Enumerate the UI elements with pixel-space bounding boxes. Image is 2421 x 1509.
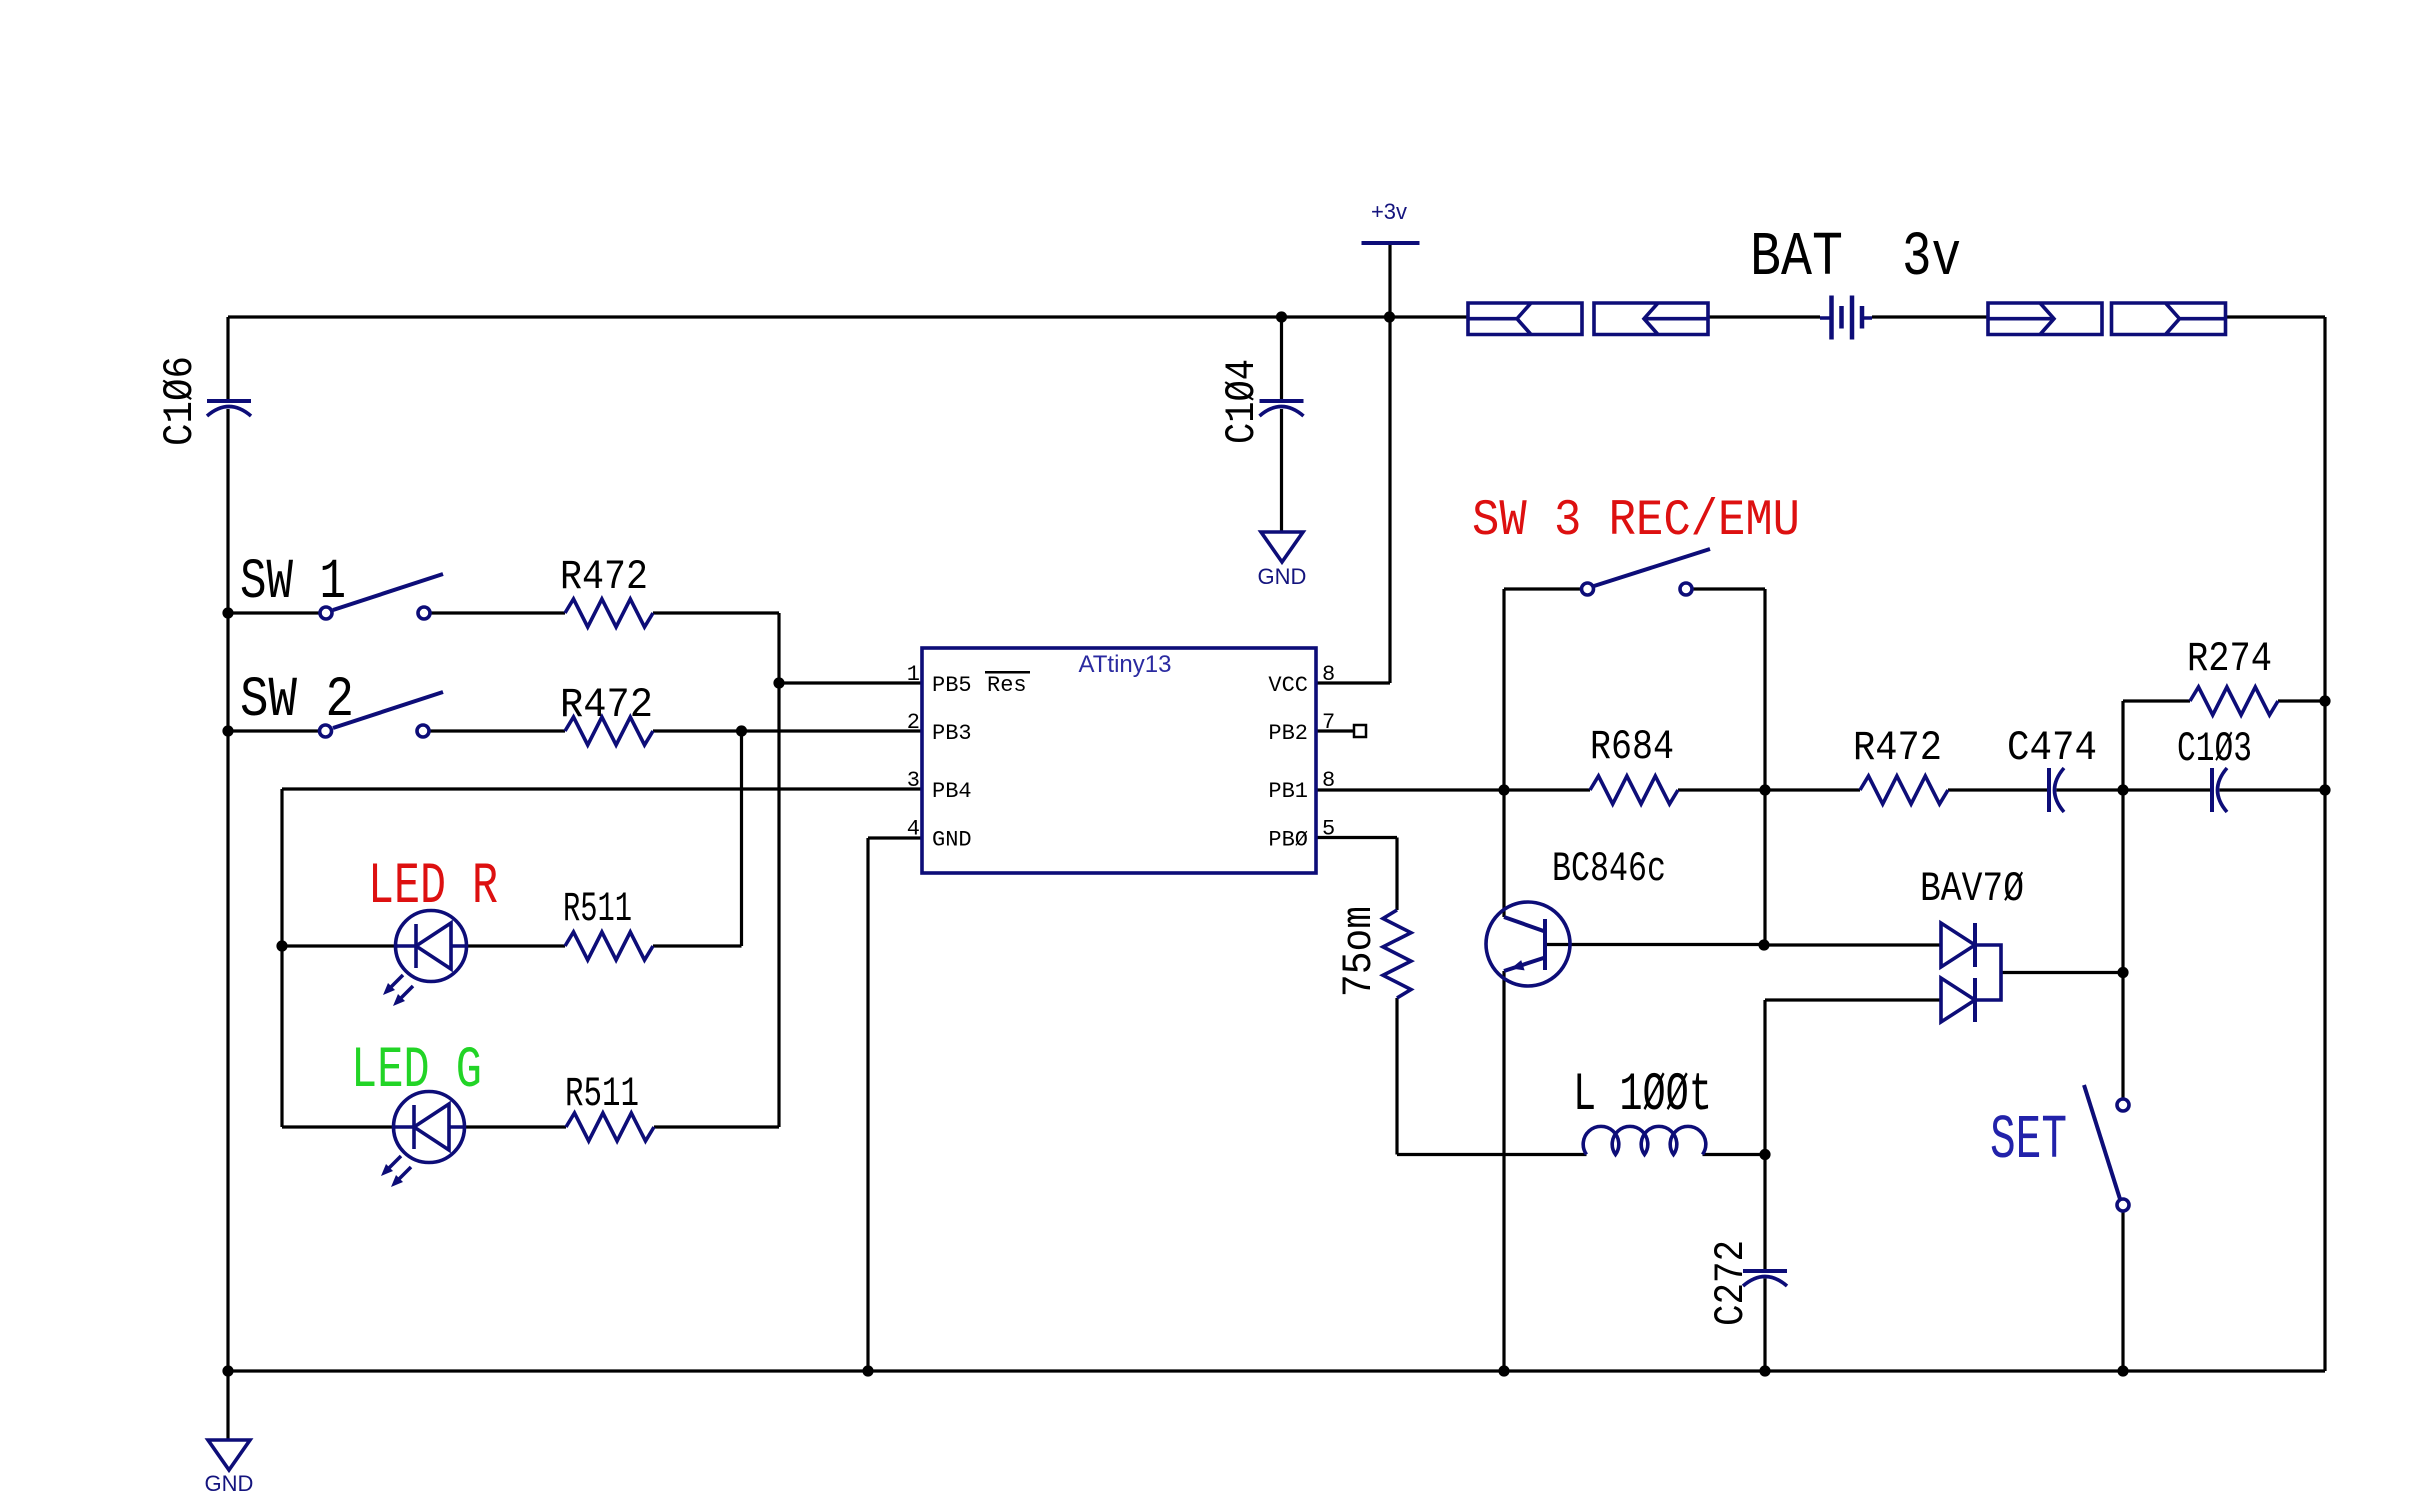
junction node BAV70 out / x=2123 — [2117, 967, 2128, 978]
resistor R472 (SW1 row) — [565, 599, 653, 627]
junction node PB5 row / x=779 — [773, 677, 784, 688]
svg-text:C1Ø3: C1Ø3 — [2177, 725, 2252, 773]
diode BAV70 (bottom) — [1941, 978, 1975, 1022]
svg-text:PBØ: PBØ — [1268, 828, 1308, 853]
LED R (red LED) — [396, 911, 467, 982]
resistor R274 — [2190, 687, 2278, 715]
resistor R472 (PB1 row) — [1860, 776, 1948, 804]
wire top diode anode — [1764, 943, 1941, 946]
wire VCC pin to +3v — [1316, 243, 1390, 683]
svg-text:SW 3 REC/EMU: SW 3 REC/EMU — [1472, 493, 1800, 550]
capacitor C272 — [1743, 1269, 1787, 1273]
svg-text:R684: R684 — [1590, 723, 1674, 771]
LED G (green LED) — [394, 1092, 465, 1163]
LED R arrows — [388, 975, 403, 990]
wire vertical x=779 (SW1/R472 to PB5 and LED G) — [777, 613, 780, 1127]
switch SW1 — [320, 607, 332, 619]
resistor 75om (vertical) — [1383, 910, 1411, 998]
svg-text:R511: R511 — [565, 1070, 639, 1118]
transistor Q1 BC846c — [1486, 902, 1570, 986]
wire SW3 left vertical x=1504 — [1502, 589, 1505, 790]
junction node PB1 row / SW3 left — [1498, 784, 1509, 795]
MCU ATtiny13 box — [922, 648, 1316, 873]
wire C104 branch — [1280, 317, 1283, 532]
wire MCU GND pin to bottom rail — [868, 838, 922, 1371]
junction node SET / bottom rail — [2117, 1365, 2128, 1376]
svg-text:7: 7 — [1322, 710, 1335, 735]
LED G arrows — [386, 1156, 401, 1171]
inductor L 100t — [1583, 1126, 1706, 1154]
+3v power symbol — [1362, 241, 1420, 245]
junction node C103 row / right rail — [2319, 784, 2330, 795]
svg-text:BAT: BAT — [1750, 222, 1843, 293]
wire LED R row — [282, 944, 742, 947]
resistor R511 (LED R row) — [565, 932, 653, 960]
wire x=1765 to C272 and rail — [1763, 1155, 1766, 1372]
svg-text:SW 1: SW 1 — [240, 551, 346, 615]
ground symbol (bottom left) — [208, 1440, 250, 1470]
svg-text:BC846c: BC846c — [1552, 845, 1666, 893]
svg-text:L 1ØØt: L 1ØØt — [1573, 1065, 1712, 1126]
svg-text:PB1: PB1 — [1268, 779, 1308, 804]
svg-text:R472: R472 — [1853, 724, 1942, 772]
junction node base row / BAV70 top anode — [1758, 939, 1769, 950]
junction node C272 / bottom rail — [1759, 1365, 1770, 1376]
svg-text:R472: R472 — [560, 553, 648, 601]
svg-text:GND: GND — [932, 828, 972, 853]
wire emitter to bottom rail — [1502, 971, 1505, 1371]
svg-text:1: 1 — [907, 662, 920, 687]
svg-text:8: 8 — [1322, 662, 1335, 687]
capacitor C474 — [2047, 768, 2051, 812]
switch SW2 — [320, 725, 332, 737]
wire top rail — [228, 315, 2325, 318]
svg-text:SET: SET — [1990, 1105, 2067, 1176]
junction node PB1 row / SW3 right — [1759, 784, 1770, 795]
junction node MCU GND drop / bottom rail — [862, 1365, 873, 1376]
svg-text:VCC: VCC — [1268, 673, 1308, 698]
wire bottom diode anode — [1765, 1000, 1941, 1155]
junction node L row / x=1765 — [1759, 1149, 1770, 1160]
diode BAV70 (top) — [1941, 923, 1975, 967]
junction node R274 / right rail — [2319, 695, 2330, 706]
svg-text:+3v: +3v — [1371, 199, 1407, 224]
svg-text:C272: C272 — [1707, 1240, 1755, 1326]
svg-text:R472: R472 — [560, 681, 653, 729]
svg-text:C1Ø4: C1Ø4 — [1218, 359, 1266, 444]
svg-text:R274: R274 — [2187, 635, 2272, 683]
junction node left rail / SW2 row — [222, 725, 233, 736]
wire SW3 row — [1504, 587, 1765, 590]
svg-text:BAV7Ø: BAV7Ø — [1920, 865, 2024, 913]
svg-text:LED G: LED G — [351, 1039, 482, 1104]
wire PB2 stub — [1316, 729, 1354, 732]
svg-text:PB4: PB4 — [932, 779, 972, 804]
svg-text:PB3: PB3 — [932, 721, 972, 746]
wire BAV70 output — [2001, 971, 2123, 974]
resistor R472 (SW2 row) — [565, 717, 653, 745]
battery holder contact (left outer) — [1468, 303, 1582, 335]
svg-text:3v: 3v — [1902, 222, 1961, 293]
svg-text:GND: GND — [205, 1471, 254, 1496]
junction node top rail / +3v VCC — [1384, 311, 1395, 322]
wire x=1765 down to BAV70 anode — [1763, 790, 1766, 945]
junction node PB1 row / x=2123 — [2117, 784, 2128, 795]
wire SW1 row — [228, 611, 779, 614]
wire R274 branch — [2123, 701, 2325, 790]
wire right rail — [2323, 317, 2326, 1371]
wire PB1 / R684 / R472 / C474 / C103 row — [1316, 788, 2325, 791]
svg-text:2: 2 — [907, 710, 920, 735]
svg-text:3: 3 — [907, 768, 920, 793]
svg-text:Res: Res — [987, 673, 1027, 698]
wire PB4 row — [282, 787, 922, 790]
battery holder contact (right outer) — [2112, 303, 2226, 335]
battery cell BAT 3v — [1820, 316, 1872, 320]
junction node LED R row / x=282 — [276, 940, 287, 951]
ground symbol (C104) — [1261, 532, 1303, 562]
wire transistor base row — [1547, 943, 1764, 946]
svg-text:R511: R511 — [563, 885, 632, 933]
svg-text:LED R: LED R — [368, 855, 498, 920]
junction node top rail / C104 — [1276, 311, 1287, 322]
wire SW2 row to PB3 — [228, 729, 922, 732]
pin 7 PB2 open terminal — [1354, 725, 1366, 737]
svg-text:SW 2: SW 2 — [240, 669, 354, 733]
svg-text:C1Ø6: C1Ø6 — [156, 356, 204, 446]
capacitor C103 — [2210, 768, 2214, 812]
junction node emitter / bottom rail — [1498, 1365, 1509, 1376]
wire SW3 right vertical x=1765 — [1763, 589, 1766, 790]
svg-text:5: 5 — [1322, 817, 1335, 842]
wire bottom rail — [228, 1369, 2325, 1372]
junction node PB3 row / x=741.5 — [736, 725, 747, 736]
wire LED G row — [282, 1125, 779, 1128]
wire PB0 row to 75om and L — [1316, 838, 1765, 1155]
svg-text:ATtiny13: ATtiny13 — [1079, 651, 1172, 678]
capacitor C104 — [1260, 399, 1304, 403]
junction node left rail / SW1 row — [222, 607, 233, 618]
svg-text:4: 4 — [907, 817, 920, 842]
svg-text:PB5: PB5 — [932, 673, 972, 698]
resistor R684 — [1590, 776, 1678, 804]
svg-text:8: 8 — [1322, 768, 1335, 793]
BAV70 cathode bracket — [1975, 945, 2001, 1000]
battery holder contact (left inner) — [1594, 303, 1708, 335]
wire PB5 row — [779, 681, 922, 684]
switch SET — [2117, 1099, 2129, 1111]
svg-text:PB2: PB2 — [1268, 721, 1308, 746]
wire x=2123 vertical through SET — [2121, 790, 2124, 1371]
wire left rail — [226, 317, 229, 1371]
wire vertical x=282 (PB4 to LED G row) — [280, 789, 283, 1127]
wire GND stub bottom left — [226, 1371, 229, 1440]
svg-text:75om: 75om — [1335, 906, 1383, 997]
wire collector feed x=1504 — [1502, 790, 1505, 917]
wire vertical x=741.5 (PB3 junction down to LED R row) — [740, 731, 743, 946]
resistor R511 (LED G row) — [566, 1113, 654, 1141]
battery holder contact (right inner) — [1988, 303, 2102, 335]
svg-text:C474: C474 — [2007, 724, 2097, 772]
junction node left rail / bottom rail — [222, 1365, 233, 1376]
svg-text:GND: GND — [1258, 564, 1307, 589]
switch SW3 REC/EMU — [1582, 583, 1594, 595]
capacitor C106 — [207, 399, 251, 403]
